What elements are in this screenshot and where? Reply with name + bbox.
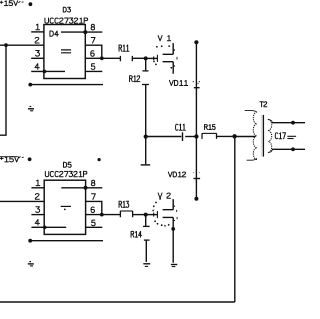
node dot V1 gate (144, 56, 148, 60)
wire T junction down (145, 137, 147, 165)
resistor R13 body top edge (120, 210, 132, 212)
transformer T2 core left (260, 115, 262, 157)
node dot pins 6-7 (100, 56, 104, 60)
transistor V2 gate bar (156, 211, 158, 218)
transformer T2 secondary top hook (268, 120, 273, 123)
text: D5 pin 8 label (91, 180, 94, 186)
text: IC D3 value (45, 18, 88, 23)
resistor R12 bottom lead (145, 85, 147, 137)
resistor R12 top lead (145, 58, 147, 70)
resistor R13 body ticks (120, 211, 132, 218)
text: resistor R11 label (119, 45, 129, 51)
diode VD11 triangle dots (193, 81, 200, 84)
node dot D5 pin4 edge (43, 226, 47, 230)
D5 pin 6 wire to R13 (86, 214, 121, 216)
IC D5 body (44, 180, 85, 234)
ground below R14 bar2 (145, 265, 148, 267)
text: diode VD11 label (169, 80, 187, 85)
text: D5 pin 6 label (91, 207, 94, 213)
text: resistor R13 label (119, 201, 129, 207)
IC D3 body (44, 25, 85, 79)
D5 pin 5 wire (86, 226, 103, 228)
transistor V1 body leads (163, 43, 174, 74)
pin 5 wire (85, 70, 102, 72)
transistor V1 circle dash right (176, 57, 178, 60)
transformer T2 core right (262, 115, 264, 157)
text: pin 7 label (91, 38, 95, 44)
capacitor C11 plate (182, 132, 184, 141)
transformer T2 primary winding (253, 112, 257, 160)
node dot transformer tap (232, 134, 236, 138)
resistor R11 body ticks (120, 56, 132, 61)
transistor V2 body leads (163, 199, 174, 263)
overbar on lower +15V (0, 156, 18, 158)
wire tap down to bottom rail (234, 136, 236, 302)
resistor R14 bottom lead (145, 240, 147, 262)
node dot diode branch bottom (194, 197, 198, 201)
text: IC D5 value (45, 171, 87, 176)
IC D3 internal line pin4 row (44, 70, 65, 72)
transformer T2 primary bottom hook (247, 158, 257, 160)
text: pin 1 label (36, 24, 40, 30)
text: pin 4 label (35, 64, 39, 70)
node dot D5 pins 6-7 (100, 213, 104, 217)
node dot wire below D3 (28, 83, 32, 87)
D5 pin 1 wire (31, 187, 44, 189)
ground symbol below D5 bar2 (30, 265, 33, 267)
ground V2 bar2 (172, 266, 176, 268)
wire left rail down and out (0, 45, 7, 135)
transformer T2 secondary bottom hook (268, 150, 273, 153)
text: IC D3 reference (63, 7, 70, 12)
text: diode VD12 label (168, 172, 186, 177)
transformer T2 primary top hook (245, 111, 257, 113)
text: transistor V2 label (158, 193, 170, 198)
transformer T2 secondary winding (268, 120, 272, 153)
resistor R12 top bar (142, 70, 148, 72)
node dot wire below D5 (28, 239, 32, 243)
ground symbol below D5 stub (29, 261, 31, 263)
wire gate node to V1 (146, 57, 158, 59)
D5 pin 8 wire (86, 187, 103, 189)
text: transformer T2 label (260, 102, 267, 107)
text: pin 3 label (36, 51, 40, 57)
text: D5 pin 7 label (92, 194, 96, 200)
resistor R14 bottom bar (144, 239, 150, 241)
pin 7 wire bent down to pin 6 (85, 45, 102, 58)
wire tap to primary (235, 136, 256, 138)
node dot V2 gate (144, 213, 148, 217)
pin 6 wire to R11 (85, 57, 120, 59)
text: pin 5 label (91, 64, 95, 70)
diode VD12 triangle dots (193, 172, 200, 173)
ground symbol below D5 bar1 (28, 263, 34, 265)
IC D5 internal line pin8 row (61, 187, 85, 189)
wire diode branch vertical (195, 42, 197, 199)
ground below R14 bar1 (143, 263, 150, 265)
wire C11 to cross node (185, 136, 196, 138)
D5 pin 3 wire (31, 214, 44, 216)
text: D5 pin 2 label (35, 194, 39, 200)
resistor R12 bottom bar (142, 84, 149, 86)
wire R13 to V2 gate node (133, 214, 146, 216)
capacitor C17 plate bottom (287, 138, 293, 140)
text: capacitor C17 label (275, 133, 285, 139)
node dot D5 pin8 edge (84, 186, 88, 190)
text: D5 pin 4 label (35, 220, 39, 226)
text: IC D3 internal name (50, 31, 58, 36)
text: pin 6 label (91, 51, 94, 57)
node junction left rail (4, 43, 8, 47)
wire secondary bottom (272, 148, 305, 150)
pin 1 wire (31, 31, 44, 33)
transistor V2 circle dash right (176, 210, 178, 220)
wire tick after +15V (18, 1, 23, 3)
node +15V lower dot (28, 157, 32, 161)
termination bar (141, 164, 151, 166)
node dot D3 pin4 edge (43, 70, 47, 74)
wire below IC D3 (30, 84, 103, 86)
text: resistor R14 label (131, 231, 142, 237)
node dot secondary bottom (291, 147, 295, 151)
wire R11 to V1 gate node (132, 57, 145, 59)
node dot T junction (144, 135, 148, 139)
node dot secondary top (291, 121, 295, 125)
diode branch top nub (194, 41, 198, 43)
node dot D3 pin8 edge (83, 30, 87, 34)
resistor R15 body top edge (202, 132, 217, 134)
node dot cross junction (194, 134, 198, 138)
transistor V2 gate tick (153, 213, 155, 217)
transistor V1 nubs (174, 50, 175, 66)
resistor R15 body ends (202, 133, 217, 139)
text: resistor R12 label (130, 76, 140, 82)
node dot diode branch top (194, 40, 198, 44)
wire below IC D5 (30, 240, 103, 242)
pin 8 wire (85, 31, 102, 33)
wire R15 to transformer tap (217, 135, 235, 137)
node +15V dot (29, 2, 33, 6)
transistor V2 dashed circle dots (152, 198, 169, 227)
wire gate node to V2 (146, 214, 158, 216)
text: D5 pin 5 label (92, 220, 96, 226)
pin 3 wire (31, 57, 44, 59)
text: D5 pin 3 label (36, 207, 40, 213)
text: D5 pin 1 label (36, 180, 40, 186)
text: net label +15V (lower) (0, 157, 19, 162)
transistor V2 nubs (174, 206, 175, 220)
ground symbol below D3 bar2 (30, 110, 33, 112)
wire bottom rail (0, 301, 235, 303)
ground symbol below D3 bar1 (28, 108, 34, 110)
D5 pin 4 wire (31, 226, 44, 228)
capacitor C17 plate top (287, 135, 296, 137)
diode VD12 bar (194, 178, 201, 180)
D5 pin 7 wire bent down to pin 6 (86, 201, 102, 214)
ground symbol below D3 (30, 106, 32, 108)
IC D5 internal minus mark (61, 205, 71, 207)
wire node to C11 (146, 136, 182, 138)
transistor V1 gate tick (153, 56, 155, 60)
text: pin 2 label (35, 37, 39, 43)
text: transistor V1 label (158, 36, 171, 41)
node dot V2 source (171, 227, 175, 231)
diode VD11 bar (194, 87, 200, 89)
IC D3 internal equals mark (61, 50, 71, 53)
wire +15V rail to pin 2 (0, 44, 44, 46)
wire +15V rail to D5 pin 2 (0, 200, 44, 202)
pin 4 wire (31, 70, 44, 72)
text: capacitor C11 label (176, 124, 186, 130)
ground V2 bar1 (171, 264, 177, 266)
resistor R14 top bar (143, 225, 150, 227)
wire secondary top (272, 122, 305, 124)
transistor V1 gate bar (156, 55, 158, 62)
wire tick after lower +15V (19, 157, 24, 159)
IC D5 internal line pin4 row (45, 226, 67, 228)
IC D5 internal dot (64, 209, 66, 211)
text: pin 8 label (91, 24, 94, 30)
text: net label +15V (top) (0, 1, 18, 6)
transistor V1 dashed circle dots (153, 45, 172, 69)
text: IC D5 reference (64, 162, 72, 167)
text: resistor R15 label (205, 125, 216, 130)
IC D3 internal line pin8 row (61, 31, 85, 33)
node stray dot (98, 158, 101, 161)
resistor R14 top lead (145, 215, 147, 227)
